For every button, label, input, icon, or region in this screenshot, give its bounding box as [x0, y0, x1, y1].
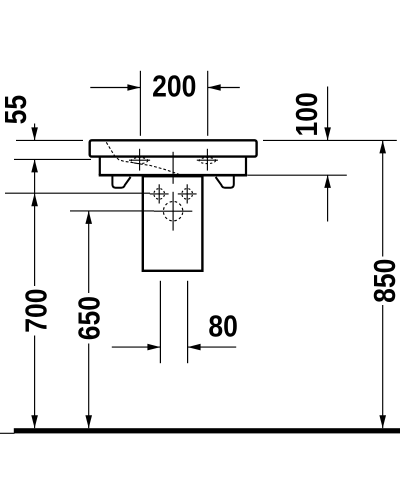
mounting hole left: [150, 184, 169, 203]
svg-text:650: 650: [73, 296, 107, 340]
dimension 100 arrows: [327, 87, 329, 141]
ground line: [14, 428, 400, 433]
dimension 200 lines and arrows: [90, 87, 240, 89]
dimension 55 extension lines: [14, 140, 91, 159]
svg-text:850: 850: [368, 259, 400, 303]
left foot: [112, 176, 130, 188]
drain hole: [154, 192, 192, 231]
svg-text:55: 55: [0, 95, 34, 125]
dimension 700 extension line: [5, 192, 150, 194]
hidden interior contour (dashed): [106, 142, 179, 174]
centerline: [172, 152, 174, 184]
pedestal siphon cover: [143, 176, 203, 271]
mounting hole right: [178, 184, 197, 203]
dimension 80 lines and arrows: [112, 346, 161, 348]
dimension 55 arrows: [34, 124, 36, 141]
washbasin body left edge: [99, 156, 101, 175]
dimension 700 line and arrows: [34, 193, 36, 286]
tap hole right crosshair: [197, 149, 218, 171]
svg-text:200: 200: [152, 70, 196, 104]
drain pipe right line: [187, 281, 189, 363]
dimension 650 line and arrows: [88, 211, 90, 293]
dimension 100 extension lines: [263, 139, 397, 141]
washbasin body right edge: [245, 156, 247, 175]
svg-text:700: 700: [20, 288, 54, 332]
tap hole left crosshair: [129, 149, 150, 171]
dimension 650 extension line: [70, 210, 154, 212]
right foot: [216, 176, 234, 188]
dimension 850 line and arrows: [382, 140, 384, 256]
drain pipe left line: [159, 281, 161, 363]
washbasin rim (side view): [90, 140, 257, 156]
dimension 200 extension lines: [140, 71, 207, 136]
washbasin body bottom: [99, 174, 247, 177]
svg-text:80: 80: [208, 310, 238, 344]
svg-text:100: 100: [291, 92, 325, 136]
